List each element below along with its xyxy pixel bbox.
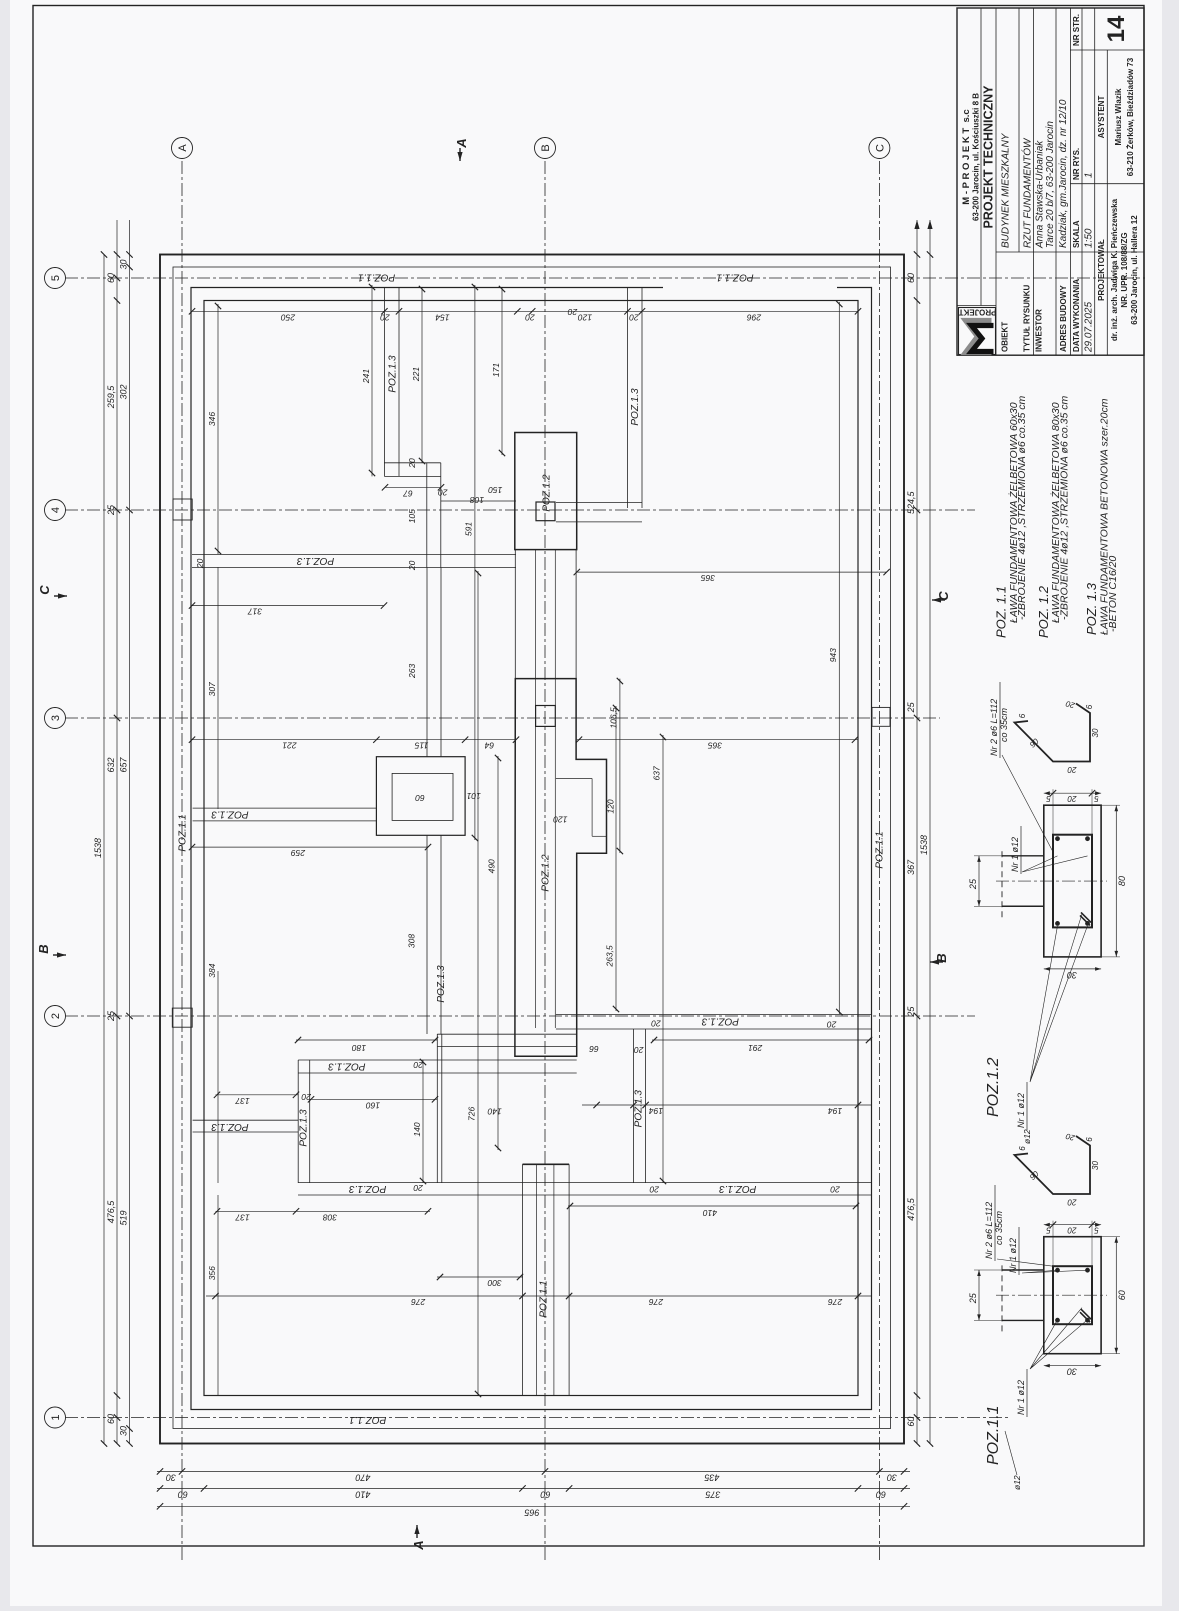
svg-text:60: 60: [178, 1489, 188, 1499]
svg-text:1538: 1538: [93, 838, 103, 858]
svg-text:154: 154: [435, 312, 449, 322]
svg-text:160: 160: [366, 1100, 380, 1110]
svg-text:POZ. 1.1: POZ. 1.1: [994, 586, 1009, 638]
svg-text:14: 14: [1103, 15, 1130, 42]
svg-text:POZ.1.3: POZ.1.3: [701, 1016, 739, 1027]
svg-text:60: 60: [106, 273, 116, 283]
svg-text:20: 20: [830, 1184, 841, 1194]
svg-text:6: 6: [1018, 1146, 1027, 1151]
svg-text:C: C: [37, 585, 52, 595]
axis A line: [181, 158, 183, 1560]
svg-text:67: 67: [403, 488, 413, 498]
svg-text:25: 25: [906, 1006, 916, 1018]
svg-text:-BETON C16/20: -BETON C16/20: [1107, 556, 1119, 632]
detail POZ.1.1 centerline: [996, 1294, 1107, 1296]
svg-text:dr. inż. arch. Jadwiga K. Pień: dr. inż. arch. Jadwiga K. Pieńczewska: [1110, 198, 1119, 341]
detail POZ.1.1 stirrup: [1053, 1266, 1092, 1324]
svg-text:-ZBROJENIE 4ø12 ,STRZEMIONA ø6: -ZBROJENIE 4ø12 ,STRZEMIONA ø6 co.35 cm: [1058, 396, 1070, 620]
svg-text:66: 66: [589, 1044, 599, 1054]
dim 108 col: [441, 500, 516, 502]
svg-text:5: 5: [50, 275, 62, 281]
svg-text:64: 64: [484, 741, 494, 751]
dim 180: [296, 1039, 437, 1041]
svg-text:105: 105: [407, 509, 417, 523]
svg-text:259,5: 259,5: [106, 385, 116, 410]
svg-text:20: 20: [525, 312, 536, 322]
svg-text:29.07.2025: 29.07.2025: [1084, 302, 1095, 353]
svg-text:470: 470: [355, 1472, 370, 1482]
svg-text:2: 2: [50, 1013, 62, 1019]
svg-text:25: 25: [968, 878, 978, 890]
svg-text:B: B: [36, 944, 51, 953]
central strip B upper thick box: [515, 433, 577, 550]
axis B crossing box 3: [536, 706, 556, 727]
svg-text:308: 308: [407, 934, 417, 948]
svg-text:80: 80: [1117, 876, 1127, 886]
bottom chain line 1: [916, 220, 918, 1444]
svg-text:3: 3: [50, 715, 62, 721]
staircase inner lines: [554, 726, 556, 1028]
svg-text:60: 60: [1117, 1290, 1127, 1300]
svg-text:20: 20: [407, 560, 417, 571]
svg-text:20: 20: [1067, 765, 1077, 774]
left chain line 2: [157, 1487, 910, 1489]
svg-text:30: 30: [1091, 728, 1100, 737]
wall V3 pair: [627, 288, 629, 509]
detail POZ.1.2 wall above: [1002, 905, 1044, 907]
axis crossing box A2: [172, 1008, 192, 1027]
detail POZ.1.1 dim width: [1115, 1237, 1117, 1354]
svg-text:317: 317: [248, 607, 262, 617]
svg-text:A: A: [177, 144, 189, 152]
svg-text:20: 20: [629, 312, 640, 322]
svg-text:4: 4: [50, 507, 62, 513]
svg-text:943: 943: [828, 648, 838, 662]
wall jog pair: [384, 475, 440, 477]
svg-text:637: 637: [652, 766, 662, 780]
svg-text:NR. UPR. 108/88/ZG: NR. UPR. 108/88/ZG: [1120, 232, 1129, 307]
svg-text:POZ.1.1: POZ.1.1: [178, 814, 189, 851]
svg-text:POZ.1.3: POZ.1.3: [630, 388, 641, 426]
bottom chain line 2: [929, 220, 931, 1444]
axis circle 4: [45, 500, 66, 521]
svg-text:M - P R O J E K T s.c: M - P R O J E K T s.c: [961, 109, 972, 204]
detail POZ.1.1 dims 5 20 5 right: [1044, 1224, 1101, 1226]
svg-text:30: 30: [1091, 1161, 1100, 1170]
wall axis4 pair: [556, 521, 642, 523]
title block logo: [959, 308, 996, 355]
svg-text:Nr 2 ø6 L=112: Nr 2 ø6 L=112: [989, 699, 999, 756]
svg-text:POZ.1.3: POZ.1.3: [388, 355, 399, 393]
svg-text:20: 20: [1067, 794, 1077, 803]
svg-text:180: 180: [352, 1043, 366, 1053]
axis 3 line: [65, 717, 940, 719]
svg-text:5: 5: [1046, 794, 1051, 803]
svg-text:307: 307: [207, 682, 217, 696]
svg-text:POZ.1.3: POZ.1.3: [298, 1109, 309, 1147]
svg-text:60: 60: [876, 1489, 886, 1499]
svg-text:120: 120: [606, 799, 616, 813]
svg-text:194: 194: [828, 1106, 842, 1116]
svg-text:259: 259: [291, 848, 306, 858]
svg-text:115: 115: [415, 741, 429, 751]
svg-text:137: 137: [235, 1096, 249, 1106]
dim 221 t1: [421, 287, 423, 463]
dim 194 row: [582, 1104, 872, 1106]
svg-text:Mariusz Wlazik: Mariusz Wlazik: [1114, 88, 1123, 145]
svg-text:384: 384: [207, 963, 217, 977]
svg-text:PROJEKTOWAŁ: PROJEKTOWAŁ: [1097, 239, 1106, 301]
svg-text:276: 276: [828, 1297, 843, 1307]
outer footing edge R1: [160, 255, 904, 1444]
svg-text:410: 410: [703, 1208, 717, 1218]
svg-text:A: A: [411, 1540, 426, 1550]
svg-text:296: 296: [747, 312, 762, 322]
svg-text:367: 367: [906, 859, 916, 875]
svg-text:5: 5: [1094, 1226, 1099, 1235]
wall V2b pair: [426, 568, 428, 757]
axis 5 line: [65, 277, 1145, 279]
detail POZ.1.2 dim 30 left: [1044, 968, 1101, 970]
svg-text:ø12: ø12: [1012, 1475, 1022, 1490]
svg-text:OBIEKT: OBIEKT: [1001, 322, 1010, 352]
svg-text:POZ.1.3: POZ.1.3: [297, 555, 335, 566]
axis crossing box C3: [872, 707, 890, 726]
connecting wall pair: [193, 1131, 299, 1133]
svg-text:30: 30: [119, 259, 129, 269]
dim 106,5: [619, 679, 621, 853]
svg-text:726: 726: [467, 1107, 477, 1121]
svg-text:6: 6: [1018, 713, 1027, 718]
svg-text:410: 410: [355, 1489, 370, 1499]
svg-text:POZ.1.3: POZ.1.3: [328, 1060, 366, 1071]
svg-text:221: 221: [282, 741, 297, 751]
svg-text:60: 60: [906, 273, 916, 283]
axis 4 line: [65, 509, 975, 511]
axis circle A: [172, 138, 193, 159]
svg-text:ASYSTENT: ASYSTENT: [1097, 96, 1106, 139]
axis circle 5: [45, 268, 66, 289]
svg-text:25: 25: [906, 701, 916, 713]
svg-text:221: 221: [411, 367, 421, 382]
svg-text:6: 6: [1085, 1137, 1094, 1142]
dim 637: [662, 735, 664, 1183]
top chain line 2: [116, 220, 118, 1444]
svg-text:657: 657: [119, 757, 129, 773]
svg-text:591: 591: [463, 522, 473, 536]
dim 171: [501, 287, 503, 455]
svg-text:POZ.1.2: POZ.1.2: [541, 854, 552, 892]
detail POZ.1.2 footing section: [1044, 805, 1101, 957]
svg-text:60: 60: [415, 793, 425, 803]
svg-text:276: 276: [411, 1297, 426, 1307]
svg-text:Anna Stawska-Urbaniak: Anna Stawska-Urbaniak: [1035, 140, 1046, 249]
svg-text:300: 300: [487, 1278, 501, 1288]
svg-text:140: 140: [487, 1107, 501, 1117]
detail POZ.1.2 dim width: [1115, 805, 1117, 957]
wall H4 pair: [298, 1194, 872, 1196]
dim 317: [192, 605, 384, 607]
axis C line: [878, 158, 880, 1560]
svg-text:NR RYS.: NR RYS.: [1072, 148, 1081, 180]
svg-text:106,5: 106,5: [609, 707, 619, 729]
svg-text:632: 632: [106, 757, 116, 772]
svg-text:101: 101: [466, 791, 480, 801]
svg-text:171: 171: [491, 363, 501, 377]
svg-text:POZ.1.3: POZ.1.3: [719, 1183, 757, 1194]
svg-text:965: 965: [524, 1507, 540, 1517]
svg-text:365: 365: [701, 573, 715, 583]
svg-text:5: 5: [1094, 794, 1099, 803]
axis circle 2: [45, 1006, 66, 1027]
axis circle 1: [45, 1407, 66, 1428]
svg-text:524,5: 524,5: [906, 490, 916, 514]
wall V1 pair (top-right horizontal): [383, 287, 385, 476]
svg-text:108: 108: [470, 495, 484, 505]
svg-text:20: 20: [195, 558, 205, 569]
svg-text:A: A: [454, 138, 469, 148]
svg-text:Tarce 20 b/7, 63-200 Jarocin: Tarce 20 b/7, 63-200 Jarocin: [1045, 121, 1056, 248]
svg-text:63-210 Żerków, Bieździadów 73: 63-210 Żerków, Bieździadów 73: [1126, 57, 1135, 176]
stirrup diagram POZ.1.2: [1015, 704, 1091, 762]
dim 291: [652, 1039, 872, 1041]
svg-text:30: 30: [887, 1472, 897, 1482]
svg-text:20: 20: [438, 487, 449, 497]
detail POZ.1.2 centerline: [996, 880, 1107, 882]
svg-text:1538: 1538: [919, 835, 929, 855]
svg-text:POZ. 1.3: POZ. 1.3: [1084, 582, 1099, 635]
axis circle B: [535, 138, 556, 159]
svg-text:63-200 Jarocin, ul. Hallera 12: 63-200 Jarocin, ul. Hallera 12: [1130, 215, 1139, 325]
svg-text:60: 60: [540, 1489, 550, 1499]
dim 140 room: [422, 1060, 424, 1183]
svg-text:291: 291: [748, 1043, 763, 1053]
dim 137 308 row: [216, 1210, 431, 1212]
svg-text:Nr 1 ø12: Nr 1 ø12: [1016, 1093, 1026, 1128]
B wall lower: [522, 1164, 524, 1396]
svg-text:POZ.1.1: POZ.1.1: [875, 831, 886, 868]
svg-text:476,5: 476,5: [106, 1200, 116, 1224]
svg-text:365: 365: [708, 741, 722, 751]
dim 490: [497, 756, 499, 1150]
svg-text:356: 356: [207, 1266, 217, 1280]
svg-text:20: 20: [649, 1184, 660, 1194]
detail POZ.1.2 stirrup: [1053, 835, 1092, 928]
axis 1 line: [65, 1417, 1008, 1419]
axis 2 line: [65, 1015, 975, 1017]
svg-text:POZ.1.3: POZ.1.3: [211, 1121, 249, 1132]
svg-text:20: 20: [413, 1183, 424, 1193]
svg-text:Nr 1 ø12: Nr 1 ø12: [1016, 1380, 1026, 1415]
dim 307 384 356: [217, 567, 219, 809]
axis circle 3: [45, 708, 66, 729]
dim 160: [310, 1098, 437, 1100]
dim 726: [477, 571, 479, 1396]
small room left wall pair: [297, 1060, 299, 1183]
svg-text:120: 120: [578, 312, 592, 322]
svg-text:263,5: 263,5: [605, 945, 615, 968]
dim 346: [217, 304, 219, 554]
svg-text:346: 346: [207, 412, 217, 426]
svg-text:20: 20: [1067, 1198, 1077, 1207]
axis B crossing box: [536, 502, 555, 521]
svg-text:Nr 1 ø12: Nr 1 ø12: [1008, 1238, 1018, 1273]
wall H1 pair (POZ.1.3 vertical center-right): [192, 567, 516, 569]
svg-text:Nr 2 ø6 L=112: Nr 2 ø6 L=112: [984, 1202, 994, 1259]
svg-text:BUDYNEK MIESZKALNY: BUDYNEK MIESZKALNY: [1001, 132, 1012, 248]
dim 365b: [577, 739, 858, 741]
svg-text:140: 140: [412, 1122, 422, 1136]
svg-text:INWESTOR: INWESTOR: [1035, 309, 1044, 352]
svg-text:30: 30: [1067, 970, 1077, 980]
detail POZ.1.1 wall above: [1002, 1319, 1044, 1321]
dim 67 col: [385, 486, 441, 488]
dim row right rooms: [192, 310, 858, 312]
top chain line 1: [103, 255, 105, 1444]
small room top wall pair: [298, 1072, 577, 1074]
svg-text:1: 1: [50, 1414, 62, 1420]
axis circle C: [869, 138, 890, 159]
wall V2 pair: [426, 463, 428, 568]
svg-text:ADRES BUDOWY: ADRES BUDOWY: [1059, 285, 1068, 352]
left chain line 3: [157, 1505, 910, 1507]
svg-text:137: 137: [235, 1212, 249, 1222]
svg-text:POZ.1.1: POZ.1.1: [985, 1405, 1002, 1465]
detail POZ.1.1 dim 25: [978, 1270, 980, 1320]
svg-text:5: 5: [1046, 1226, 1051, 1235]
svg-text:POZ.1.1: POZ.1.1: [358, 271, 395, 282]
svg-text:63-200 Jarocin, ul. Kościuszki: 63-200 Jarocin, ul. Kościuszki 8 B: [972, 93, 981, 221]
svg-text:241: 241: [361, 369, 371, 384]
svg-text:308: 308: [323, 1212, 337, 1222]
svg-text:20: 20: [380, 312, 391, 322]
svg-text:194: 194: [649, 1106, 663, 1116]
detail POZ.1.1 footing section: [1044, 1237, 1101, 1354]
central strip B upper thin: [514, 550, 516, 679]
svg-text:120: 120: [553, 815, 567, 825]
dim 365a: [577, 571, 887, 573]
inner wall face R3: [191, 288, 872, 1410]
wall H2 pair: [556, 1028, 872, 1030]
detail POZ.1.2 dims 5 20 5 right: [1044, 792, 1101, 794]
svg-text:6: 6: [1085, 704, 1094, 709]
detail POZ.1.2 dim 25: [978, 856, 980, 906]
svg-text:20: 20: [301, 1092, 312, 1102]
dim row chimney: [192, 739, 516, 741]
svg-text:-ZBROJENIE 4ø12 ,STRZEMIONA ø6: -ZBROJENIE 4ø12 ,STRZEMIONA ø6 co.35 cm: [1016, 396, 1028, 620]
dim 276 row: [206, 1295, 872, 1297]
top chain line 3: [129, 220, 131, 1444]
stirrup diagram POZ.1.1: [1015, 1136, 1091, 1194]
svg-text:POZ.1.1: POZ.1.1: [349, 1414, 386, 1425]
svg-text:60: 60: [106, 1414, 116, 1424]
svg-text:30: 30: [166, 1472, 176, 1482]
svg-text:ø12: ø12: [1022, 1129, 1032, 1144]
inner footing edge R4: [204, 301, 858, 1396]
svg-text:519: 519: [119, 1210, 129, 1225]
svg-text:PROJEKT TECHNICZNY: PROJEKT TECHNICZNY: [982, 85, 996, 229]
svg-text:TYTUŁ RYSUNKU: TYTUŁ RYSUNKU: [1023, 285, 1032, 352]
svg-text:25: 25: [968, 1292, 978, 1304]
svg-text:POZ. 1.2: POZ. 1.2: [1036, 585, 1051, 638]
svg-text:PROJEKT: PROJEKT: [959, 308, 997, 317]
outer wall face R2: [173, 267, 891, 1429]
svg-text:20: 20: [1067, 1226, 1077, 1235]
svg-text:DATA WYKONANIA: DATA WYKONANIA: [1072, 279, 1081, 352]
svg-text:1:50: 1:50: [1084, 228, 1095, 248]
svg-text:30: 30: [1067, 1367, 1077, 1377]
svg-text:POZ.1.2: POZ.1.2: [985, 1057, 1002, 1117]
svg-text:POZ.1.3: POZ.1.3: [211, 809, 249, 820]
wall H3 pair: [193, 820, 377, 822]
svg-text:476,5: 476,5: [906, 1197, 916, 1221]
svg-text:490: 490: [487, 859, 497, 873]
dim 241: [371, 285, 373, 476]
svg-text:20: 20: [413, 1060, 424, 1070]
left chain line 1: [157, 1470, 910, 1472]
title block grid: [957, 8, 1144, 355]
svg-text:Kadziak, gm.Jarocin, dz. nr 12: Kadziak, gm.Jarocin, dz. nr 12/10: [1058, 99, 1069, 248]
svg-text:POZ.1.2: POZ.1.2: [542, 474, 553, 512]
dim 259: [192, 846, 428, 848]
wall V4 pair: [633, 1029, 635, 1183]
svg-text:POZ.1.3: POZ.1.3: [349, 1183, 387, 1194]
staircase outer wall: [515, 679, 607, 1057]
svg-text:263: 263: [407, 664, 417, 679]
svg-text:C: C: [874, 144, 886, 152]
svg-text:302: 302: [119, 384, 129, 399]
small room right wall pair: [436, 1034, 438, 1183]
dim 263,5: [615, 706, 617, 1011]
axis B line: [544, 158, 546, 1560]
svg-text:Nr 1 ø12: Nr 1 ø12: [1010, 837, 1020, 872]
detail POZ.1.1 dim 30 left: [1044, 1365, 1101, 1367]
svg-text:25: 25: [106, 504, 116, 516]
svg-text:POZ.1.3: POZ.1.3: [436, 965, 447, 1003]
axis crossing box A4: [173, 499, 192, 520]
wall V2c pair: [426, 835, 428, 1034]
svg-text:POZ.1.1: POZ.1.1: [716, 271, 753, 282]
svg-text:375: 375: [705, 1489, 721, 1499]
svg-text:1: 1: [1084, 172, 1095, 178]
dim 943: [838, 302, 840, 1014]
svg-text:SKALA: SKALA: [1072, 220, 1081, 248]
svg-text:20: 20: [651, 1019, 662, 1029]
svg-text:25: 25: [106, 1010, 116, 1022]
dim 591: [474, 285, 476, 840]
dim 137 top: [216, 1094, 299, 1096]
svg-text:60: 60: [906, 1417, 916, 1427]
dim 410: [568, 1205, 858, 1207]
svg-text:20: 20: [634, 1045, 645, 1055]
svg-text:20: 20: [407, 458, 417, 469]
svg-text:co 35cm: co 35cm: [999, 707, 1009, 742]
svg-text:POZ.1.1: POZ.1.1: [538, 1280, 549, 1317]
svg-text:250: 250: [281, 312, 296, 322]
svg-text:435: 435: [704, 1472, 720, 1482]
svg-text:20: 20: [827, 1019, 838, 1029]
svg-text:NR STR.: NR STR.: [1072, 14, 1081, 46]
chimney box: [376, 757, 465, 836]
svg-text:RZUT FUNDAMENTÓW: RZUT FUNDAMENTÓW: [1021, 137, 1034, 248]
svg-text:276: 276: [649, 1297, 664, 1307]
dim 300: [437, 1276, 523, 1278]
doorway wall pair: [437, 1045, 576, 1047]
svg-text:co 35cm: co 35cm: [994, 1210, 1004, 1245]
svg-text:20: 20: [568, 307, 579, 317]
svg-text:150: 150: [488, 485, 502, 495]
svg-text:B: B: [540, 144, 552, 151]
